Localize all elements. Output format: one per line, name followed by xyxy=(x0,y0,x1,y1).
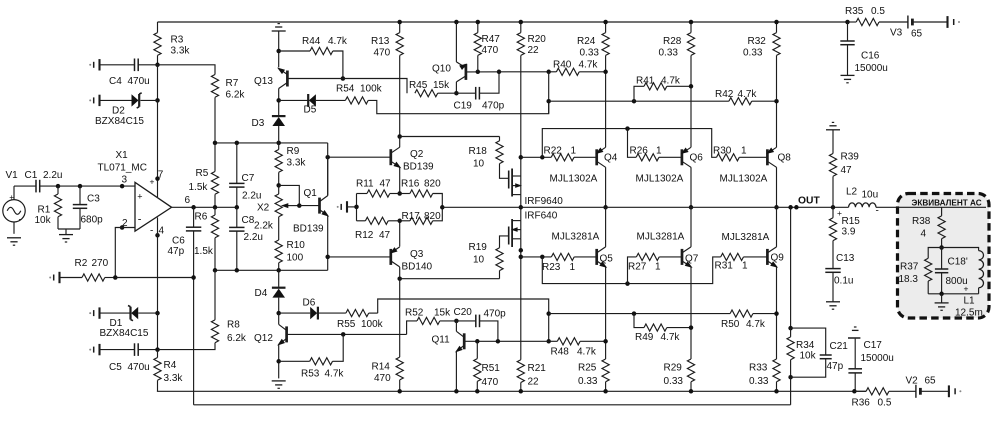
svg-text:270: 270 xyxy=(92,258,109,269)
node: C16/R35 junction xyxy=(845,20,850,25)
svg-text:100k: 100k xyxy=(360,84,383,95)
svg-text:MJL1302A: MJL1302A xyxy=(720,174,768,185)
node: R47 top on rail xyxy=(476,20,481,25)
diode D5 xyxy=(279,94,346,116)
terminal: C4 input port xyxy=(89,59,99,70)
ground: above R39 xyxy=(826,122,840,129)
svg-text:D3: D3 xyxy=(252,118,265,129)
node: R49 right junction xyxy=(689,325,694,330)
resistor R47 xyxy=(474,22,500,72)
svg-text:470u: 470u xyxy=(128,362,150,373)
node: R47 bottom junction xyxy=(476,70,481,75)
svg-text:2.2u: 2.2u xyxy=(242,191,261,202)
node: R20 top on rail xyxy=(519,20,524,25)
resistor R37 xyxy=(899,248,942,294)
svg-text:MJL3281A: MJL3281A xyxy=(722,232,770,243)
transistor Q4 MJL1302A xyxy=(550,147,618,207)
svg-text:1: 1 xyxy=(655,262,661,273)
resistor R1 xyxy=(35,186,62,229)
wire: load entry xyxy=(897,206,987,208)
node: R52/C20 junction xyxy=(454,319,459,324)
node: R13 top on rail xyxy=(397,20,402,25)
transistor Q6 MJL1302A xyxy=(636,147,704,207)
wire: R1-C3 bottom xyxy=(58,228,80,230)
node: R44 tee xyxy=(276,49,281,54)
wire: lower base bus xyxy=(542,257,720,284)
resistor R42 xyxy=(715,89,777,105)
svg-text:100k: 100k xyxy=(361,319,384,330)
terminal: D2 input port xyxy=(89,95,99,106)
resistor R28 xyxy=(659,22,695,147)
resistor R13 xyxy=(371,22,403,137)
svg-text:IRF9640: IRF9640 xyxy=(525,196,564,207)
svg-text:C13: C13 xyxy=(836,253,855,264)
svg-text:R2: R2 xyxy=(75,258,88,269)
resistor R5 xyxy=(189,143,219,207)
node: R25 bottom on rail xyxy=(603,389,608,394)
capacitor C6 xyxy=(168,207,202,277)
svg-text:L2: L2 xyxy=(846,187,858,198)
ground: R1/C3 ground xyxy=(59,229,73,242)
svg-text:R36: R36 xyxy=(852,398,871,409)
node: R51 bottom on rail xyxy=(475,389,480,394)
node: R28 top on rail xyxy=(689,20,694,25)
node: pin4 dot xyxy=(155,233,160,238)
wire: column below C4 node xyxy=(157,65,159,101)
node: node C at R6 xyxy=(213,268,218,273)
svg-text:R14: R14 xyxy=(372,362,391,373)
svg-text:C3: C3 xyxy=(87,194,100,205)
node: R53 tee on emitter xyxy=(276,359,281,364)
svg-text:R54: R54 xyxy=(336,84,355,95)
node: C17/R36 on rail xyxy=(852,389,857,394)
svg-text:BD140: BD140 xyxy=(402,262,433,273)
svg-text:R24: R24 xyxy=(577,36,596,47)
battery V2 xyxy=(906,376,949,398)
wire: R26 riser xyxy=(628,129,637,158)
node: sense bus tee xyxy=(546,99,551,104)
svg-text:1: 1 xyxy=(570,262,576,273)
svg-text:3.3k: 3.3k xyxy=(164,373,184,384)
wire: C5 row to R8 xyxy=(158,343,216,350)
resistor R30 xyxy=(713,146,767,161)
svg-text:Q13: Q13 xyxy=(254,76,273,87)
wire: C4 node to R7 xyxy=(158,65,216,75)
resistor R11 xyxy=(356,179,400,198)
node: R33 bottom on rail xyxy=(774,389,779,394)
svg-text:R48: R48 xyxy=(551,347,570,358)
resistor R39 xyxy=(829,130,859,208)
svg-text:R7: R7 xyxy=(226,78,239,89)
wire: C6 column to feedback rail xyxy=(193,278,195,405)
svg-text:Q3: Q3 xyxy=(410,249,424,260)
svg-text:R52: R52 xyxy=(405,308,424,319)
resistor R55 xyxy=(337,310,384,331)
resistor R19 xyxy=(469,236,509,279)
svg-text:R53: R53 xyxy=(301,369,320,380)
wire: IRF640 drain column xyxy=(520,239,522,360)
node: lower sense tee xyxy=(546,311,551,316)
terminal: bridge probe port xyxy=(337,201,357,212)
svg-text:0.33: 0.33 xyxy=(578,376,598,387)
svg-text:C16: C16 xyxy=(861,51,880,62)
transistor Q10 xyxy=(432,22,467,93)
battery V3 xyxy=(890,16,948,40)
svg-text:0.33: 0.33 xyxy=(659,48,679,59)
svg-text:R33: R33 xyxy=(749,363,768,374)
svg-text:D2: D2 xyxy=(112,106,125,117)
node: R2/pin2 junction xyxy=(113,275,118,280)
svg-text:R55: R55 xyxy=(337,319,356,330)
wire: bridge vertical xyxy=(356,194,358,221)
svg-text:C17: C17 xyxy=(864,340,883,351)
node: node A at C7 xyxy=(235,141,240,146)
svg-text:C4: C4 xyxy=(109,76,122,87)
resistor R41 xyxy=(634,76,691,102)
wire: feedback column xyxy=(790,207,792,328)
svg-text:MJL3281A: MJL3281A xyxy=(637,232,685,243)
svg-text:R21: R21 xyxy=(528,363,547,374)
node: R34 bottom junction xyxy=(788,375,793,380)
svg-text:MJL3281A: MJL3281A xyxy=(552,232,600,243)
label OUT xyxy=(798,196,820,207)
node: node C at R10/D4 xyxy=(276,268,281,273)
diode D1 BZX84C15 xyxy=(100,306,158,340)
svg-text:470: 470 xyxy=(374,48,391,59)
node: R3 bottom / C4 junction xyxy=(155,63,160,68)
node: Q2 base tee xyxy=(325,155,330,160)
svg-text:BZX84C15: BZX84C15 xyxy=(100,328,149,339)
transistor Q2 BD139 xyxy=(391,137,434,194)
svg-text:4.7k: 4.7k xyxy=(328,36,348,47)
svg-text:C6: C6 xyxy=(172,236,185,247)
svg-text:65: 65 xyxy=(925,376,937,387)
capacitor C21 xyxy=(791,328,849,377)
svg-text:Q4: Q4 xyxy=(604,153,618,164)
svg-text:R3: R3 xyxy=(171,35,184,46)
svg-text:V1: V1 xyxy=(6,170,19,181)
svg-text:6.2k: 6.2k xyxy=(227,333,247,344)
svg-text:R1: R1 xyxy=(38,205,51,216)
node: C20 drop tee xyxy=(496,339,501,344)
node: Q8 collector on OUT xyxy=(774,205,779,210)
node: R40 right junction xyxy=(603,70,608,75)
wire: positive supply top rail xyxy=(158,21,848,23)
svg-text:R28: R28 xyxy=(663,36,682,47)
node: pin7 dot xyxy=(155,176,160,181)
svg-text:BD139: BD139 xyxy=(403,162,434,173)
resistor R3 xyxy=(154,22,191,65)
svg-text:3.9: 3.9 xyxy=(842,227,856,238)
svg-text:0.5: 0.5 xyxy=(871,6,885,17)
node: R41 right junction xyxy=(689,84,694,89)
svg-text:1: 1 xyxy=(571,146,577,157)
node: R48 right junction xyxy=(603,339,608,344)
wire: Q9 emitter column xyxy=(776,267,778,359)
inductor L1 xyxy=(942,248,984,319)
resistor R16 xyxy=(400,179,443,208)
svg-text:Q10: Q10 xyxy=(432,64,451,75)
node: Q4 collector on OUT xyxy=(603,205,608,210)
svg-text:Q8: Q8 xyxy=(778,153,792,164)
svg-text:C1: C1 xyxy=(25,170,38,181)
svg-text:R42: R42 xyxy=(715,89,734,100)
node: Q6 collector on OUT xyxy=(689,205,694,210)
node: Q2 emitter junction xyxy=(397,191,402,196)
capacitor C7 xyxy=(229,143,261,207)
resistor R21 xyxy=(517,360,546,392)
svg-text:-: - xyxy=(150,226,153,237)
wire: Q5 emitter column xyxy=(605,267,607,359)
wire: R23 feed row xyxy=(521,256,552,258)
wire: Q2 collector line to R18 xyxy=(400,136,500,138)
svg-text:6.2k: 6.2k xyxy=(226,90,246,101)
mosfet IRF9640 xyxy=(509,169,564,208)
svg-text:C20: C20 xyxy=(454,307,473,318)
node: R42 right junction xyxy=(774,99,779,104)
node: C6 bottom junction xyxy=(191,275,196,280)
svg-text:D4: D4 xyxy=(255,288,268,299)
node: bridge probe tee xyxy=(354,205,359,210)
svg-text:C19: C19 xyxy=(454,101,473,112)
resistor R18 xyxy=(469,137,509,179)
node: feedback takeoff xyxy=(788,205,793,210)
resistor R51 xyxy=(474,341,501,391)
svg-text:R15: R15 xyxy=(842,216,861,227)
wire: sense bus riser xyxy=(548,72,550,114)
diode D6 xyxy=(279,298,346,320)
op-amp X1 TL071_MC xyxy=(98,150,191,237)
node: node A at R9 xyxy=(276,141,281,146)
svg-text:Q9: Q9 xyxy=(771,253,785,264)
svg-text:+: + xyxy=(137,191,142,201)
inductor L2 xyxy=(846,187,897,217)
node: OUT text pin xyxy=(794,205,799,210)
svg-text:R22: R22 xyxy=(544,146,563,157)
resistor R54 xyxy=(336,84,549,114)
wire: global feedback bottom rail xyxy=(194,404,791,406)
resistor R17 xyxy=(400,207,443,224)
wire: R27 riser xyxy=(628,257,637,284)
wire: bias column xyxy=(327,143,329,196)
diode D4 xyxy=(255,270,286,313)
transistor Q1 BD139 xyxy=(293,157,329,234)
wire: Q3 base line xyxy=(328,256,391,258)
resistor R35 xyxy=(845,6,908,26)
svg-text:R23: R23 xyxy=(542,262,561,273)
svg-text:10: 10 xyxy=(473,255,485,266)
capacitor C1 xyxy=(14,170,62,192)
svg-text:MJL1302A: MJL1302A xyxy=(550,174,598,185)
svg-text:V3: V3 xyxy=(890,28,903,39)
svg-text:-: - xyxy=(19,215,22,226)
node: output at C7/C8 xyxy=(235,205,240,210)
svg-text:0.33: 0.33 xyxy=(664,376,684,387)
node: R23 tee xyxy=(519,255,524,260)
resistor R23 xyxy=(542,253,597,273)
svg-text:2.2u: 2.2u xyxy=(244,232,263,243)
svg-text:R32: R32 xyxy=(748,36,767,47)
svg-text:R47: R47 xyxy=(482,34,501,45)
svg-text:4.7k: 4.7k xyxy=(661,332,681,343)
svg-text:1: 1 xyxy=(741,146,747,157)
node: D2 junction xyxy=(155,98,160,103)
svg-text:1.5k: 1.5k xyxy=(194,246,214,257)
svg-text:15000u: 15000u xyxy=(861,353,894,364)
svg-text:15k: 15k xyxy=(433,80,450,91)
box: speaker equivalent (ЭКВИВАЛЕНТ АС) xyxy=(898,194,990,319)
node: D1 junction xyxy=(155,311,160,316)
wire: sense bus line xyxy=(549,100,729,102)
node: zobel tee xyxy=(831,205,836,210)
wire: IRF9640 drain to OUT xyxy=(520,195,522,208)
transistor Q8 MJL1302A xyxy=(720,147,792,207)
resistor R4 xyxy=(154,350,184,392)
node: R27 riser tee xyxy=(625,281,630,286)
node: R29 bottom on rail xyxy=(689,389,694,394)
svg-text:R35: R35 xyxy=(845,6,864,17)
resistor R22 xyxy=(544,146,597,161)
resistor R40 xyxy=(549,60,606,76)
node: C5/R4/R8 junction xyxy=(155,347,160,352)
wire: load bottom row xyxy=(928,293,978,295)
svg-text:470p: 470p xyxy=(482,101,505,112)
resistor R48 xyxy=(549,338,606,358)
capacitor C5 xyxy=(100,343,158,373)
resistor R38 xyxy=(912,207,945,247)
svg-text:R9: R9 xyxy=(287,146,300,157)
svg-text:Q11: Q11 xyxy=(432,335,451,346)
svg-text:R50: R50 xyxy=(721,319,740,330)
ground: Q12 emitter ground xyxy=(272,381,286,388)
resistor R8 xyxy=(211,270,247,344)
svg-text:V2: V2 xyxy=(906,376,919,387)
node: R34 top junction xyxy=(788,326,793,331)
svg-text:0.33: 0.33 xyxy=(743,48,763,59)
svg-text:47: 47 xyxy=(841,165,853,176)
svg-text:MJL1302A: MJL1302A xyxy=(636,174,684,185)
svg-text:R37: R37 xyxy=(900,262,919,273)
node: Q13 base junction xyxy=(341,76,346,81)
svg-text:820: 820 xyxy=(424,179,441,190)
svg-text:TL071_MC: TL071_MC xyxy=(98,163,147,174)
wire: base row to R45 xyxy=(343,79,407,94)
svg-text:R49: R49 xyxy=(635,332,654,343)
wire: Q13 base row xyxy=(287,78,343,80)
node: R21 bottom on rail xyxy=(519,389,524,394)
wire: lower sense riser xyxy=(378,299,549,341)
ground: V1 ground xyxy=(7,238,21,245)
svg-text:+: + xyxy=(964,284,969,294)
node: C19 riser junction xyxy=(497,70,502,75)
node: Q10 collector on rail xyxy=(454,20,459,25)
node: R14 bottom on rail xyxy=(397,389,402,394)
svg-text:R8: R8 xyxy=(227,320,240,331)
resistor R2 xyxy=(60,258,116,281)
resistor R31 xyxy=(715,253,768,271)
svg-text:BD139: BD139 xyxy=(293,224,324,235)
resistor R53 xyxy=(279,334,345,379)
node: pin2 dot xyxy=(120,225,125,230)
svg-text:R45: R45 xyxy=(409,80,428,91)
svg-text:4.7k: 4.7k xyxy=(577,347,597,358)
svg-text:0.33: 0.33 xyxy=(749,376,769,387)
svg-text:10u: 10u xyxy=(862,190,879,201)
node: C3 top xyxy=(78,184,83,189)
node: drain pin dot xyxy=(519,248,524,253)
node: R32 top on rail xyxy=(774,20,779,25)
wire: upper base bus xyxy=(542,129,716,158)
svg-text:15000u: 15000u xyxy=(855,63,888,74)
svg-text:47: 47 xyxy=(380,179,392,190)
svg-text:C18': C18' xyxy=(948,257,968,268)
node: R1 top xyxy=(56,184,61,189)
svg-text:R39: R39 xyxy=(841,152,860,163)
wire: ground to Q13 xyxy=(278,31,280,67)
svg-text:R30: R30 xyxy=(713,146,732,157)
node: R22 left junction xyxy=(519,155,524,160)
svg-text:1.5k: 1.5k xyxy=(189,182,209,193)
svg-text:10k: 10k xyxy=(800,351,817,362)
node: Q3 collector junction xyxy=(397,276,402,281)
resistor R34 xyxy=(787,328,817,377)
wire: Q1 emitter column xyxy=(327,216,329,271)
node: Q10 emitter junction xyxy=(454,91,459,96)
svg-text:65: 65 xyxy=(911,29,923,40)
transistor Q12 xyxy=(254,313,287,378)
svg-text:R19: R19 xyxy=(469,242,488,253)
svg-text:4.7k: 4.7k xyxy=(661,76,681,87)
transistor Q5 MJL3281A xyxy=(552,207,614,268)
svg-text:X1: X1 xyxy=(116,150,129,161)
source V1 sine xyxy=(3,170,25,234)
transistor Q13 xyxy=(254,68,287,101)
svg-text:Q7: Q7 xyxy=(685,254,699,265)
svg-text:Q5: Q5 xyxy=(600,254,614,265)
ground: load ground xyxy=(935,294,949,311)
capacitor C3 xyxy=(73,186,103,229)
potentiometer X2 xyxy=(254,185,299,240)
node: R53 riser tee xyxy=(341,332,346,337)
transistor Q11 xyxy=(432,321,465,391)
wire: Q7 emitter column xyxy=(690,267,692,359)
svg-text:18.3: 18.3 xyxy=(899,274,919,285)
resistor R32 xyxy=(743,22,780,147)
resistor R7 xyxy=(211,75,245,143)
wire: column to op-amp V+ pin xyxy=(157,100,159,197)
node: output at C6 xyxy=(191,205,196,210)
svg-text:0.5: 0.5 xyxy=(878,398,892,409)
svg-text:R5: R5 xyxy=(196,168,209,179)
wire: op-amp V- pin column xyxy=(157,218,159,314)
svg-text:R10: R10 xyxy=(287,240,306,251)
svg-text:0.33: 0.33 xyxy=(580,48,600,59)
resistor R9 xyxy=(275,143,306,186)
wire: Q11 base row xyxy=(464,340,549,342)
svg-text:R51: R51 xyxy=(482,363,501,374)
svg-text:47p: 47p xyxy=(827,361,844,372)
ground: above Q13 xyxy=(272,24,286,31)
wire: feedback to bottom rail xyxy=(790,377,792,405)
node: OUT at MOSFET xyxy=(519,205,524,210)
svg-text:470: 470 xyxy=(482,45,499,56)
svg-text:4: 4 xyxy=(921,229,927,240)
svg-text:R6: R6 xyxy=(195,212,208,223)
node: R50 right junction xyxy=(774,311,779,316)
svg-text:3.3k: 3.3k xyxy=(171,46,191,57)
node: R22 riser junction xyxy=(540,155,545,160)
wire: Q12 base row xyxy=(287,333,407,335)
